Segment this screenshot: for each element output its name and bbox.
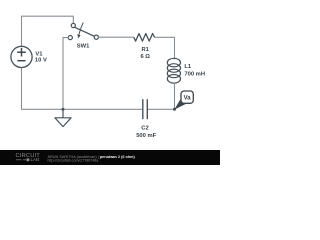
svg-text:LAB: LAB bbox=[31, 157, 40, 162]
node flag Va bbox=[174, 91, 193, 110]
wire from V1 bottom down and along bottom rail to capacitor bbox=[22, 68, 143, 110]
svg-text:6 Ω: 6 Ω bbox=[140, 54, 150, 60]
svg-text:R1: R1 bbox=[141, 47, 149, 53]
svg-text:SW1: SW1 bbox=[77, 44, 90, 50]
svg-text:500 mF: 500 mF bbox=[136, 133, 156, 139]
svg-text:http://circuitlab.com/c/778674: http://circuitlab.com/c/7786748a bbox=[48, 159, 99, 163]
wire from R1 right and down to inductor top bbox=[155, 37, 175, 59]
switch SW1 bbox=[68, 22, 98, 39]
wire from V1 top up and across top rail to switch pole stub bbox=[22, 16, 74, 46]
voltage source V1 bbox=[11, 46, 32, 67]
wire from inductor bottom to node bbox=[174, 83, 176, 110]
svg-text:700 mH: 700 mH bbox=[184, 72, 205, 78]
wire from switch common to resistor R1 bbox=[98, 36, 133, 38]
svg-text:L1: L1 bbox=[184, 64, 192, 70]
svg-text:C2: C2 bbox=[141, 126, 148, 132]
node A junction dot bbox=[173, 108, 176, 111]
ground bbox=[55, 109, 71, 126]
footer bar bbox=[0, 150, 220, 165]
capacitor C2 bbox=[143, 99, 148, 119]
svg-text:Va: Va bbox=[184, 96, 192, 102]
junction dot at ground node bbox=[62, 108, 65, 111]
svg-text:10 V: 10 V bbox=[35, 58, 47, 64]
wire from switch lower throw left and down to bottom rail bbox=[63, 38, 68, 109]
wire from capacitor right plate to node bbox=[148, 108, 175, 110]
svg-text:V1: V1 bbox=[35, 52, 43, 58]
inductor L1 bbox=[167, 58, 180, 83]
CircuitLab logo bbox=[16, 153, 41, 162]
resistor R1 bbox=[134, 34, 155, 42]
